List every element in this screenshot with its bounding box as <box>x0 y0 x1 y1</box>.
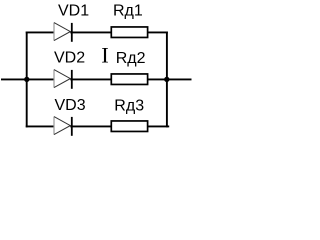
node: right junction dot <box>164 77 169 82</box>
right bus wire <box>166 32 168 128</box>
diode VD2 <box>54 70 72 89</box>
wire: branch 3 right <box>148 125 170 127</box>
wire: branch 1 anode lead <box>26 31 54 33</box>
wire: left input lead <box>1 78 28 80</box>
svg-text:I: I <box>101 43 109 68</box>
resistor Rд1 <box>111 27 147 38</box>
diode VD3 <box>54 117 72 136</box>
wire: branch 1 right <box>148 31 168 33</box>
svg-text:Rд2: Rд2 <box>116 50 146 67</box>
svg-text:VD3: VD3 <box>55 97 86 114</box>
resistor Rд2 <box>111 74 147 85</box>
wire: branch 2 mid <box>70 78 111 80</box>
diode VD1 <box>54 23 72 42</box>
resistor Rд3 <box>111 121 147 132</box>
wire: branch 3 anode lead <box>26 125 54 127</box>
svg-text:VD2: VD2 <box>54 50 85 67</box>
svg-text:Rд3: Rд3 <box>114 98 144 115</box>
node: left junction dot <box>24 77 29 82</box>
wire: branch 2 anode lead <box>26 78 54 80</box>
left bus wire <box>26 32 28 128</box>
wire: branch 1 mid <box>70 31 111 33</box>
wire: right output lead <box>166 78 192 80</box>
wire: branch 3 mid <box>70 125 111 127</box>
wire: branch 2 right <box>148 78 167 80</box>
svg-text:VD1: VD1 <box>58 3 89 20</box>
svg-text:Rд1: Rд1 <box>113 3 143 20</box>
